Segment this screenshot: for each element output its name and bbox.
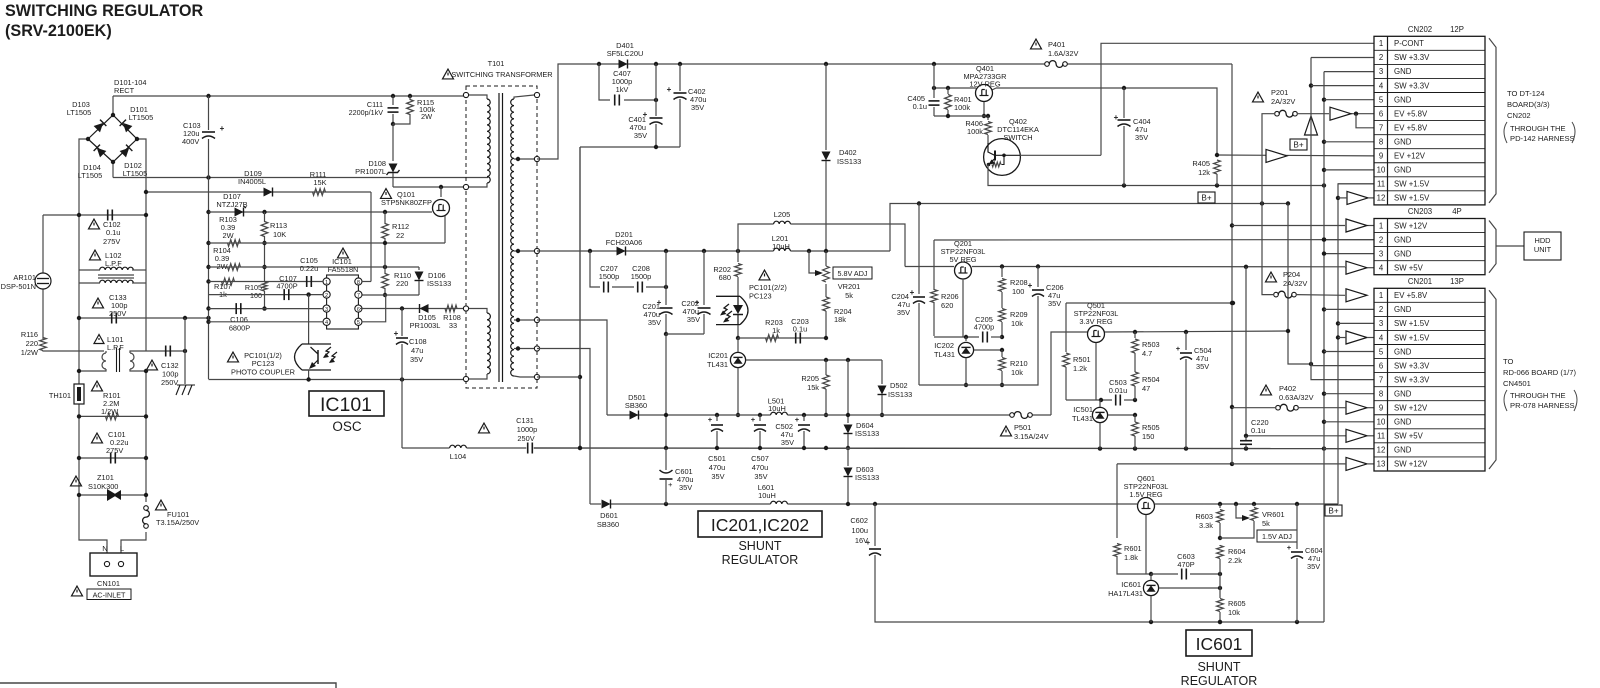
svg-text:4: 4 (1379, 81, 1384, 90)
svg-text:+: + (668, 480, 673, 489)
svg-text:35V: 35V (711, 472, 724, 481)
wire opto emitter (308, 370, 310, 380)
varistor Z101 (71, 473, 122, 501)
wire opto column (308, 295, 310, 344)
svg-text:P401: P401 (1048, 40, 1065, 49)
svg-text:SW +3.3V: SW +3.3V (1394, 375, 1430, 384)
svg-text:35V: 35V (781, 438, 794, 447)
svg-text:10uH: 10uH (758, 491, 776, 500)
resistor R605 (1217, 588, 1246, 624)
svg-text:EV +12V: EV +12V (1394, 152, 1426, 161)
wire CN203 pin1 (1232, 225, 1374, 227)
capacitor C102 (89, 210, 121, 247)
wire CN201 pin5 (1324, 351, 1374, 353)
wire pin6 net (360, 306, 467, 310)
wire Q101 gate (431, 211, 433, 213)
svg-text:35V: 35V (1048, 299, 1061, 308)
resistor R401 (945, 88, 972, 116)
svg-text:33: 33 (449, 321, 457, 330)
svg-text:PD-142 HARNESS: PD-142 HARNESS (1510, 134, 1575, 143)
label B+ bottom (1325, 505, 1342, 516)
diode D107 (216, 192, 247, 217)
resistor R104 (213, 246, 240, 271)
svg-text:T101: T101 (488, 59, 505, 68)
svg-text:7: 7 (1379, 123, 1383, 132)
capacitor C507 (751, 415, 769, 481)
svg-text:10k: 10k (1011, 368, 1023, 377)
svg-text:+: + (1176, 344, 1181, 353)
svg-text:35V: 35V (634, 131, 647, 140)
diode D401 (607, 41, 644, 69)
wire pin2 net (209, 292, 324, 296)
svg-text:35V: 35V (687, 315, 700, 324)
diode D109 (238, 169, 272, 197)
resistor R206 (931, 290, 959, 311)
wire CN201 pin2 (1324, 308, 1374, 310)
svg-text:4700p: 4700p (974, 323, 995, 332)
svg-text:+: + (667, 85, 672, 94)
capacitor C502 (775, 415, 810, 448)
resistor R111 (310, 170, 327, 195)
label Q601 (1124, 474, 1169, 499)
resistor R205 (801, 360, 829, 417)
arrow CN203p4 (1345, 261, 1374, 274)
svg-text:3: 3 (1379, 67, 1383, 76)
ic IC201 TL431 (707, 338, 746, 417)
svg-text:1k: 1k (772, 326, 780, 335)
svg-text:8: 8 (357, 280, 360, 286)
diode D105 (410, 304, 441, 330)
svg-text:R206: R206 (941, 292, 959, 301)
wire pin1 net (209, 281, 324, 283)
wire 3.3 to bus (1286, 204, 1313, 367)
svg-text:ISS133: ISS133 (855, 473, 879, 482)
svg-text:620: 620 (941, 301, 953, 310)
svg-text:PR1003L: PR1003L (410, 321, 441, 330)
svg-text:R210: R210 (1010, 359, 1028, 368)
ic IC101 pin 5 (355, 318, 362, 326)
svg-text:10uH: 10uH (768, 404, 786, 413)
transformer T101 box (466, 86, 537, 388)
svg-text:8: 8 (1379, 389, 1383, 398)
wire CN202 pin2 (1311, 57, 1374, 59)
resistor R406 (965, 116, 991, 143)
resistor R116 (21, 330, 104, 357)
wire raw rail y415 (607, 413, 1051, 417)
svg-text:IC202: IC202 (934, 341, 954, 350)
wire tap A to D501 (537, 320, 607, 415)
wire pin7 link (1356, 114, 1374, 128)
svg-text:TL431: TL431 (1072, 414, 1093, 423)
capacitor C111 (349, 96, 399, 126)
svg-text:+: + (220, 124, 225, 133)
svg-text:VR201: VR201 (838, 282, 861, 291)
box HDD UNIT (1524, 232, 1561, 260)
wire IC201 ref (746, 358, 882, 362)
label CN202 dest (1504, 89, 1575, 143)
label D104 (78, 163, 103, 180)
ic IC101 pin 4 (323, 318, 330, 326)
wire CN202 pin3 (1324, 71, 1374, 73)
resistor R204 (823, 284, 852, 338)
capacitor C602 (850, 504, 1324, 624)
diode D201 (606, 230, 643, 256)
svg-text:0.1u: 0.1u (1251, 426, 1265, 435)
resistor R108 (443, 305, 461, 330)
wire raw rail y504 (590, 502, 1338, 506)
resistor R101 (77, 381, 148, 420)
svg-text:CN201: CN201 (1408, 277, 1432, 286)
svg-text:RD-066 BOARD (1/7): RD-066 BOARD (1/7) (1503, 368, 1576, 377)
svg-text:ISS133: ISS133 (855, 429, 879, 438)
wire sec return y147 (580, 145, 680, 149)
svg-text:+: + (751, 415, 756, 424)
svg-text:4: 4 (325, 320, 328, 326)
fuse P201 (1253, 88, 1298, 117)
svg-text:1/2W: 1/2W (21, 348, 38, 357)
svg-text:L104: L104 (450, 452, 466, 461)
svg-text:IC201,IC202: IC201,IC202 (711, 515, 809, 535)
transistor Q101 (433, 187, 450, 243)
wire pin5 net (362, 295, 386, 322)
svg-text:SW +1.5V: SW +1.5V (1394, 333, 1430, 342)
capacitor C103 (182, 121, 225, 146)
ic IC101 pin 8 (355, 278, 362, 286)
svg-text:SW +12V: SW +12V (1394, 404, 1428, 413)
svg-text:C108: C108 (409, 337, 427, 346)
capacitor C404 (1114, 88, 1151, 186)
wire y267 (209, 265, 420, 269)
arrow EV12 (1266, 149, 1287, 162)
svg-text:TL431: TL431 (934, 350, 955, 359)
arrow CN201p1 (1346, 289, 1367, 302)
photo coupler PC101(2/2) (716, 296, 748, 324)
wire P204 out (1297, 294, 1345, 297)
svg-text:CN4501: CN4501 (1503, 379, 1531, 388)
wire frame left x1117 (1116, 464, 1118, 538)
wire Q401 base y116 (934, 114, 990, 118)
svg-text:35V: 35V (1307, 562, 1320, 571)
fuse P402 wire (1232, 407, 1275, 409)
capacitor C202 (681, 251, 710, 334)
wire CN201 pin8 (1324, 393, 1374, 395)
svg-text:1.5V REG: 1.5V REG (1129, 490, 1163, 499)
label B+ mid (1198, 192, 1215, 203)
svg-text:1: 1 (325, 280, 328, 286)
svg-text:3: 3 (325, 307, 328, 313)
svg-text:9: 9 (1379, 404, 1383, 413)
arrow CN201p4 (1338, 331, 1374, 344)
wire L205 branch (738, 224, 905, 267)
svg-text:150: 150 (1142, 432, 1154, 441)
resistor R501 (1063, 303, 1091, 400)
wire LED cathode (736, 325, 740, 340)
label D101-104 RECT (114, 78, 146, 95)
wire fb node y338 (738, 336, 828, 340)
svg-text:0.22u: 0.22u (300, 264, 319, 273)
svg-text:1.2k: 1.2k (1073, 364, 1087, 373)
resistor R505 (1132, 415, 1160, 449)
svg-text:18k: 18k (834, 315, 846, 324)
inductor L601 (758, 483, 788, 504)
transformer secondary winding (511, 92, 540, 379)
capacitor C132 (147, 346, 179, 388)
svg-text:SW +1.5V: SW +1.5V (1394, 180, 1430, 189)
resistor R604 (1217, 545, 1246, 588)
svg-text:0.1u: 0.1u (913, 102, 927, 111)
wire +rect rail y96 (113, 94, 466, 98)
svg-text:TH101: TH101 (49, 391, 71, 400)
svg-text:12: 12 (1377, 446, 1386, 455)
svg-text:UNIT: UNIT (1534, 245, 1552, 254)
transformer tap 5.8V (514, 248, 540, 253)
svg-text:D402: D402 (839, 148, 857, 157)
resistor R103 (219, 215, 240, 246)
svg-text:2W: 2W (222, 231, 233, 240)
svg-text:LT1505: LT1505 (123, 169, 148, 178)
label CN201 dest (1503, 357, 1577, 411)
capacitor C101 (92, 430, 129, 464)
wire AC right bus x146 (137, 139, 146, 502)
diode D101 (120, 120, 133, 133)
svg-text:SW +12V: SW +12V (1394, 460, 1428, 469)
svg-text:R603: R603 (1195, 512, 1213, 521)
svg-text:+: + (1287, 543, 1292, 552)
connector CN201 (1374, 277, 1496, 471)
svg-text:GND: GND (1394, 305, 1412, 314)
svg-text:R503: R503 (1142, 340, 1160, 349)
svg-text:2: 2 (1379, 235, 1383, 244)
svg-text:L.P.F: L.P.F (105, 259, 122, 268)
svg-text:TL431: TL431 (707, 360, 728, 369)
transistor Q601 (1138, 498, 1155, 575)
label Q201 (941, 239, 986, 264)
ic IC101 pin 7 (355, 291, 362, 299)
svg-text:IC601: IC601 (1196, 634, 1243, 654)
svg-text:6: 6 (1379, 361, 1383, 370)
svg-text:47u: 47u (411, 346, 423, 355)
wire 3.3 rail y332 (1104, 330, 1288, 334)
wire SW5V branch (1246, 267, 1346, 436)
transistor Q201 (955, 262, 972, 337)
svg-text:250V: 250V (161, 378, 178, 387)
svg-text:5: 5 (1379, 95, 1384, 104)
label D103 (67, 100, 92, 117)
svg-text:THROUGH THE: THROUGH THE (1510, 124, 1566, 133)
wire gate node y400 (1066, 398, 1137, 402)
svg-text:B+: B+ (1293, 141, 1303, 150)
svg-text:10uH: 10uH (772, 242, 790, 251)
label 1.5V ADJ box (1257, 530, 1297, 542)
arrow CN203p1 (1346, 219, 1367, 232)
svg-text:5k: 5k (1262, 519, 1270, 528)
svg-text:CN202: CN202 (1408, 25, 1432, 34)
svg-text:1.6A/32V: 1.6A/32V (1048, 49, 1078, 58)
fuse P402 (1261, 384, 1314, 411)
wire primary gnd y379 (209, 377, 468, 381)
svg-text:PC123: PC123 (749, 292, 772, 301)
wire CN202 pin11 (1338, 183, 1374, 185)
svg-text:NTZJ27B: NTZJ27B (216, 200, 247, 209)
svg-text:Z101: Z101 (97, 473, 114, 482)
svg-text:275V: 275V (103, 237, 120, 246)
svg-text:EV +5.8V: EV +5.8V (1394, 109, 1428, 118)
svg-text:4P: 4P (1452, 207, 1462, 216)
capacitor C601 (660, 448, 694, 504)
svg-text:RECT: RECT (114, 86, 135, 95)
svg-text:LT1505: LT1505 (67, 108, 92, 117)
svg-text:250V: 250V (109, 309, 126, 318)
svg-text:35V: 35V (1135, 133, 1148, 142)
arrester AR101 (1, 273, 51, 291)
wire y243 (209, 242, 446, 244)
svg-text:SW +1.5V: SW +1.5V (1394, 194, 1430, 203)
svg-text:6: 6 (357, 307, 360, 313)
photo coupler PC101(1/2) (295, 344, 338, 370)
diode D501 (625, 393, 647, 420)
diode D603 (844, 448, 880, 506)
label PC101(2/2) (749, 270, 787, 300)
ic IC101 pin 6 (355, 305, 362, 313)
svg-text:3.3V REG: 3.3V REG (1079, 317, 1113, 326)
svg-text:LT1505: LT1505 (78, 171, 103, 180)
svg-text:LT1505: LT1505 (129, 113, 154, 122)
resistor R210 (999, 350, 1028, 387)
capacitor C405 (907, 64, 939, 116)
svg-text:GND: GND (1394, 347, 1412, 356)
wire IC501 ref (1108, 413, 1137, 417)
svg-text:100k: 100k (967, 127, 983, 136)
diode D601 (597, 500, 619, 530)
transformer tap 12V (514, 156, 540, 161)
capacitor C603 (1151, 552, 1222, 580)
wire C205 net (934, 335, 1002, 339)
wire 5.8 bus to P204 (1262, 204, 1273, 295)
resistor R603 (1195, 504, 1223, 540)
wire main rail y448 (402, 446, 1374, 451)
svg-text:B+: B+ (1328, 507, 1338, 516)
svg-text:VR601: VR601 (1262, 510, 1285, 519)
svg-text:400V: 400V (182, 137, 199, 146)
svg-text:PR1007L: PR1007L (355, 167, 386, 176)
choke L101 (77, 335, 148, 374)
svg-text:SHUNT: SHUNT (738, 539, 781, 553)
svg-text:10K: 10K (273, 230, 286, 239)
chassis ground 777 (176, 318, 195, 395)
svg-text:R405: R405 (1192, 159, 1210, 168)
svg-text:ISS133: ISS133 (888, 390, 912, 399)
wire CN202 pin4 (1311, 85, 1374, 87)
fuse FU101 (143, 500, 200, 528)
svg-text:PR-078 HARNESS: PR-078 HARNESS (1510, 401, 1575, 410)
wire IC601 ref (1159, 586, 1222, 590)
label IC601 box (1181, 630, 1258, 688)
arrow EV58 (1330, 107, 1351, 120)
transformer tap B (514, 346, 540, 351)
svg-text:1500p: 1500p (599, 272, 620, 281)
ic IC101 body (327, 275, 359, 329)
svg-text:100u: 100u (852, 526, 868, 535)
svg-text:3: 3 (1379, 319, 1383, 328)
svg-text:P204: P204 (1283, 270, 1300, 279)
svg-text:R116: R116 (21, 330, 38, 339)
svg-text:11: 11 (1377, 180, 1385, 189)
svg-text:+: + (708, 415, 713, 424)
wire CN201 pin6 (1311, 365, 1374, 367)
svg-text:11: 11 (1377, 432, 1385, 441)
title text (5, 2, 203, 40)
capacitor C206 (919, 267, 1064, 386)
svg-text:FA5518N: FA5518N (328, 265, 359, 274)
svg-text:6800P: 6800P (229, 324, 250, 333)
wire 1.5V bus (1336, 184, 1374, 504)
transformer aux winding (463, 306, 490, 382)
svg-text:OSC: OSC (332, 419, 362, 434)
capacitor C105 (300, 256, 319, 287)
node y215 wire (43, 213, 148, 217)
capacitor C201 (642, 251, 672, 336)
wire EV12 y155 (1215, 153, 1374, 157)
svg-text:12: 12 (1377, 194, 1386, 203)
arrow CN201p13 (1345, 457, 1374, 470)
wire 12V bus x1232 (1230, 64, 1234, 464)
wire 5V gnd x934 (933, 240, 935, 336)
svg-text:CN101: CN101 (97, 579, 120, 588)
wire R501 top (1066, 301, 1235, 305)
connector CN101 (72, 544, 138, 596)
ic IC601 TL431 (1108, 574, 1159, 622)
svg-text:R208: R208 (1010, 278, 1028, 287)
svg-text:SB360: SB360 (597, 520, 619, 529)
capacitor C208 (631, 264, 668, 293)
svg-text:35V: 35V (679, 483, 692, 492)
svg-text:4.7: 4.7 (1142, 349, 1152, 358)
wire C103 column (208, 96, 210, 178)
svg-text:REGULATOR: REGULATOR (1181, 674, 1258, 688)
svg-text:ISS133: ISS133 (837, 157, 861, 166)
svg-text:5: 5 (357, 320, 360, 326)
transistor Q401 (976, 85, 993, 119)
diode D102 (120, 145, 133, 158)
svg-text:TO DT-124: TO DT-124 (1507, 89, 1544, 98)
svg-text:GND: GND (1394, 446, 1412, 455)
wire CN203 pin2 (1322, 237, 1374, 241)
capacitor C133 (93, 293, 128, 324)
arrow CN201p11 (1346, 429, 1374, 442)
wire pin4 net (209, 321, 324, 323)
resistor R203 (765, 318, 783, 341)
wire IC202 ref (974, 348, 1004, 352)
choke L102 (79, 250, 146, 283)
svg-text:3.15A/24V: 3.15A/24V (1014, 432, 1049, 441)
wire 5V rail y266 (905, 264, 1345, 269)
svg-text:1000p: 1000p (517, 425, 538, 434)
svg-text:+: + (394, 329, 399, 338)
connector CN203 (1374, 207, 1496, 275)
svg-text:GND: GND (1394, 137, 1412, 146)
svg-text:3: 3 (1379, 249, 1383, 258)
svg-text:5k: 5k (845, 291, 853, 300)
svg-text:2.2k: 2.2k (1228, 556, 1242, 565)
svg-text:SB360: SB360 (625, 401, 647, 410)
svg-text:R505: R505 (1142, 423, 1160, 432)
ic IC101 pin 2 (323, 291, 330, 299)
svg-text:15K: 15K (313, 178, 326, 187)
svg-text:47: 47 (1142, 384, 1150, 393)
svg-text:C131: C131 (516, 416, 534, 425)
svg-text:SW +3.3V: SW +3.3V (1394, 81, 1430, 90)
svg-text:IC101: IC101 (320, 394, 372, 416)
